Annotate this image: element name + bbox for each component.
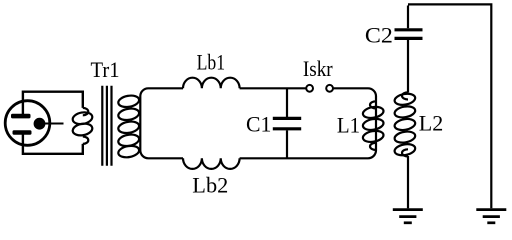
- svg-text:Iskr: Iskr: [303, 56, 333, 81]
- svg-text:C2: C2: [365, 22, 393, 47]
- svg-text:C1: C1: [246, 112, 271, 137]
- svg-text:Lb2: Lb2: [192, 172, 228, 197]
- svg-text:L2: L2: [419, 111, 444, 136]
- svg-text:Lb1: Lb1: [197, 49, 226, 74]
- svg-text:L1: L1: [337, 112, 360, 137]
- svg-text:Tr1: Tr1: [91, 57, 120, 82]
